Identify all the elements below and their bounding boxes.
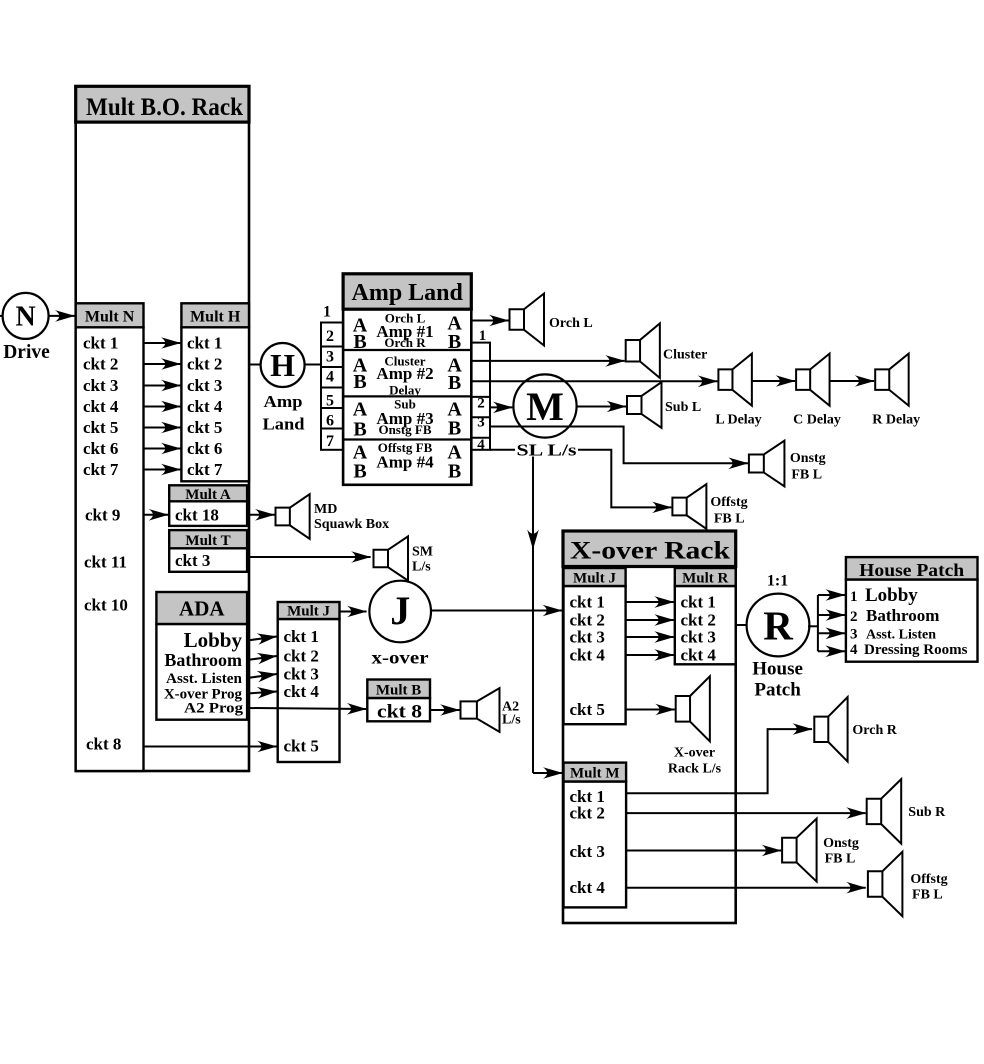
svg-text:Squawk Box: Squawk Box [314,517,389,532]
svg-text:Onstg: Onstg [823,836,859,851]
speaker Offstg FB L lower [868,852,948,916]
svg-text:6: 6 [326,413,334,430]
wires R circle to House Patch [808,595,845,651]
svg-text:Drive: Drive [3,341,50,363]
amp U2 Amp #2 labels [353,354,463,398]
svg-text:Offstg: Offstg [710,495,747,510]
svg-text:ckt 3: ckt 3 [570,628,605,647]
box Mult B.O. Rack header [76,86,249,122]
svg-text:ckt 3: ckt 3 [83,376,118,395]
wire SL L/s to Offstg FB L upper [578,450,671,508]
wire SL L/s down to Mult M [533,457,562,774]
amp U1 Amp #1 labels [353,311,463,354]
svg-text:Mult H: Mult H [190,309,241,326]
circle M (SL L/s) [513,374,576,437]
speaker Sub L [627,382,701,428]
wire Mult B to A2 speaker [430,709,460,711]
box Mult M [564,763,627,908]
svg-text:Sub L: Sub L [665,400,701,415]
svg-text:A: A [353,399,368,421]
svg-text:ckt 2: ckt 2 [83,355,118,374]
wires rack Mult J to Mult R [626,602,674,655]
circle R (House Patch) [747,573,810,701]
svg-text:Amp #2: Amp #2 [376,364,433,383]
box Mult J feeder [278,602,340,762]
svg-text:Asst. Listen: Asst. Listen [166,671,243,687]
box Mult H [181,303,249,481]
wire Mult R to R circle [736,624,748,626]
svg-text:ckt 2: ckt 2 [570,804,605,823]
svg-text:ckt 11: ckt 11 [84,553,127,572]
svg-text:ckt 8: ckt 8 [86,735,121,754]
svg-text:ckt 3: ckt 3 [187,376,222,395]
speaker C Delay [793,354,841,428]
svg-text:Patch: Patch [754,680,801,701]
svg-text:ckt 6: ckt 6 [83,439,118,458]
svg-text:Asst. Listen: Asst. Listen [866,627,936,642]
svg-text:ckt 5: ckt 5 [570,700,605,719]
svg-text:Mult J: Mult J [287,604,330,620]
svg-text:Dressing Rooms: Dressing Rooms [864,642,968,658]
svg-text:B: B [448,372,461,394]
svg-text:Land: Land [263,415,306,434]
svg-text:B: B [353,371,366,393]
wire ckt8 to Mult J ckt5 [144,746,277,748]
svg-text:Onstg: Onstg [790,451,826,466]
svg-text:ckt 8: ckt 8 [377,702,422,723]
wire L to C Delay [752,380,795,382]
svg-text:FB L: FB L [912,887,943,902]
box Amp Land body [343,309,471,485]
speaker A2 L/s [461,688,522,732]
svg-text:X-over Rack: X-over Rack [570,538,730,565]
svg-text:ckt 2: ckt 2 [187,355,222,374]
svg-text:Offstg: Offstg [910,872,947,887]
svg-text:ckt 4: ckt 4 [570,646,606,665]
wire delay chain [490,380,717,382]
node column left cells 1-7 [321,304,343,451]
svg-text:N: N [15,302,35,333]
svg-text:House: House [752,659,803,680]
svg-text:3: 3 [326,349,334,366]
svg-text:Amp #4: Amp #4 [376,453,434,472]
wire Amp1A to Orch L [471,320,508,322]
svg-text:Orch R: Orch R [852,723,897,738]
svg-text:Mult B.O. Rack: Mult B.O. Rack [86,94,243,121]
svg-text:C Delay: C Delay [793,413,841,428]
svg-text:Delay: Delay [389,383,421,398]
svg-text:Lobby: Lobby [184,628,243,652]
svg-text:SM: SM [412,545,433,560]
circle H (Amp Land) [261,343,305,434]
svg-text:ckt 6: ckt 6 [187,439,222,458]
svg-text:A2 Prog: A2 Prog [184,701,244,717]
wire cell3 to Onstg FB L upper [490,427,748,464]
svg-text:H: H [270,347,295,383]
svg-text:R Delay: R Delay [872,413,920,428]
svg-text:Mult A: Mult A [185,487,231,503]
box Amp Land header [343,274,471,309]
svg-text:Mult N: Mult N [85,309,135,326]
svg-text:ckt 3: ckt 3 [681,628,716,647]
wire Mult J feeder to J circle [340,611,367,613]
svg-text:ckt 5: ckt 5 [284,737,319,756]
svg-text:2: 2 [850,609,858,625]
svg-text:ckt 1: ckt 1 [284,627,319,646]
speaker Onstg FB L lower [782,819,859,882]
wire rack Mult J ckt5 to X-over Rack L/s [626,709,675,711]
svg-text:7: 7 [326,433,334,450]
wire to Cluster [490,360,625,362]
svg-text:1: 1 [323,304,331,321]
svg-text:L/s: L/s [412,560,431,575]
wire Mult H to H circle [249,364,261,366]
svg-text:3: 3 [850,626,858,642]
svg-text:B: B [353,461,366,483]
speaker Orch R [814,697,897,761]
box X-over Rack header [563,531,736,567]
speaker Offstg FB L upper [672,484,747,529]
svg-text:5: 5 [326,393,334,410]
amp U3 Amp #3 labels [353,397,463,441]
svg-text:M: M [526,384,564,429]
svg-text:ckt 7: ckt 7 [83,460,119,479]
box Mult T [169,530,247,572]
svg-text:ckt 5: ckt 5 [187,418,222,437]
svg-text:B: B [448,331,461,353]
box X-over Rack body [563,567,736,924]
svg-text:Orch R: Orch R [384,335,426,350]
svg-text:SL L/s: SL L/s [517,441,577,460]
svg-text:ckt 3: ckt 3 [284,665,319,684]
wire cells to M [490,406,512,408]
wire Mult M ckt2 to Sub R [626,812,866,814]
svg-text:ckt 1: ckt 1 [570,593,605,612]
wire N to rack [49,315,75,317]
svg-text:x-over: x-over [372,648,429,668]
box ADA [156,592,247,720]
speaker L Delay [715,354,761,428]
speaker Sub R [867,779,946,843]
svg-text:1: 1 [850,589,858,605]
svg-text:Cluster: Cluster [663,348,707,363]
box House Patch [846,557,978,662]
wire C to R Delay [830,380,874,382]
svg-text:4: 4 [326,369,334,386]
svg-text:ckt 4: ckt 4 [570,878,606,897]
svg-text:ckt 9: ckt 9 [85,506,120,525]
wires Mult N to Mult H ckt1-7 [144,343,181,470]
node column right cells 1-4 [471,328,490,453]
wire Mult M ckt1 to Orch R [626,729,812,793]
svg-text:Bathroom: Bathroom [164,650,242,670]
box Mult N [76,303,144,771]
box Mult A [169,485,247,526]
svg-text:3: 3 [477,415,485,431]
svg-text:ckt 4: ckt 4 [83,397,119,416]
wires ADA to Mult J [247,637,277,694]
circle N (Drive) [0,293,50,363]
svg-text:ckt 1: ckt 1 [681,593,716,612]
wire M to Sub L [577,406,626,408]
svg-text:House Patch: House Patch [859,560,964,580]
svg-text:1:1: 1:1 [767,573,788,590]
node SL L/s [517,441,577,460]
svg-text:Orch L: Orch L [549,316,593,331]
svg-text:J: J [390,588,410,633]
speaker R Delay [872,354,920,428]
svg-text:4: 4 [477,437,485,453]
svg-text:Mult B: Mult B [376,682,421,698]
svg-text:FB L: FB L [714,512,745,527]
svg-text:X-over: X-over [674,746,715,761]
svg-text:B: B [353,331,366,353]
svg-text:L Delay: L Delay [715,413,761,428]
wire Mult M ckt3 to Onstg FB L lower [626,850,781,852]
svg-text:1: 1 [479,328,487,344]
svg-text:Bathroom: Bathroom [866,606,939,625]
svg-text:ckt 3: ckt 3 [175,551,210,570]
speaker Cluster [626,323,708,378]
svg-text:R: R [763,603,793,649]
speaker SM L/s [374,536,434,580]
circle J (x-over) [369,581,431,668]
svg-text:B: B [353,419,366,441]
svg-text:ckt 2: ckt 2 [284,647,319,666]
svg-text:FB L: FB L [791,468,822,483]
svg-text:Lobby: Lobby [865,585,918,606]
svg-text:4: 4 [850,642,858,658]
svg-text:ADA: ADA [179,597,225,621]
svg-text:FB L: FB L [825,852,856,867]
svg-text:B: B [448,418,461,440]
svg-text:Mult M: Mult M [570,766,620,782]
svg-text:2: 2 [326,328,334,345]
svg-text:ckt 4: ckt 4 [187,397,223,416]
svg-text:Amp: Amp [264,392,303,411]
svg-text:ckt 3: ckt 3 [570,842,605,861]
svg-text:Sub R: Sub R [908,805,946,820]
svg-text:ckt 4: ckt 4 [681,646,717,665]
wire Mult A to MD speaker [247,514,274,516]
svg-text:L/s: L/s [502,713,521,728]
svg-text:Mult R: Mult R [682,571,728,587]
speaker Orch L [510,294,593,346]
speaker Onstg FB L upper [749,441,826,487]
speaker X-over Rack L/s [668,676,722,776]
svg-text:Mult J: Mult J [573,571,616,587]
svg-text:ckt 1: ckt 1 [83,334,118,353]
wire Mult M ckt4 to Offstg FB L lower [626,887,866,889]
speaker MD Squawk Box [276,494,390,539]
svg-text:ckt 1: ckt 1 [187,334,222,353]
wire cell4 to SL L/s label [490,449,515,451]
amp U4 Amp #4 labels [353,440,463,483]
wire H circle to amp cells [305,364,321,366]
svg-text:ckt 10: ckt 10 [84,596,128,615]
wire ckt9 to Mult A [144,514,169,516]
svg-text:Mult T: Mult T [185,533,230,549]
svg-text:MD: MD [314,502,337,517]
wire Mult T ckt3 to SM speaker [247,556,371,558]
svg-text:Amp Land: Amp Land [352,280,464,306]
svg-text:Rack L/s: Rack L/s [668,762,722,777]
box rack Mult J [564,568,626,724]
svg-text:ckt 5: ckt 5 [83,418,118,437]
svg-text:B: B [448,461,461,483]
svg-text:ckt 18: ckt 18 [175,506,219,525]
svg-text:2: 2 [477,396,485,412]
svg-text:ckt 7: ckt 7 [187,460,223,479]
box Mult B.O. Rack body [76,120,249,771]
svg-text:Onstg FB: Onstg FB [378,422,431,437]
wire J circle to rack Mult J [431,610,562,612]
box Mult B [367,680,430,723]
svg-text:ckt 4: ckt 4 [284,682,320,701]
box Mult R [675,568,736,665]
wire A2 Prog to Mult B [247,708,366,709]
